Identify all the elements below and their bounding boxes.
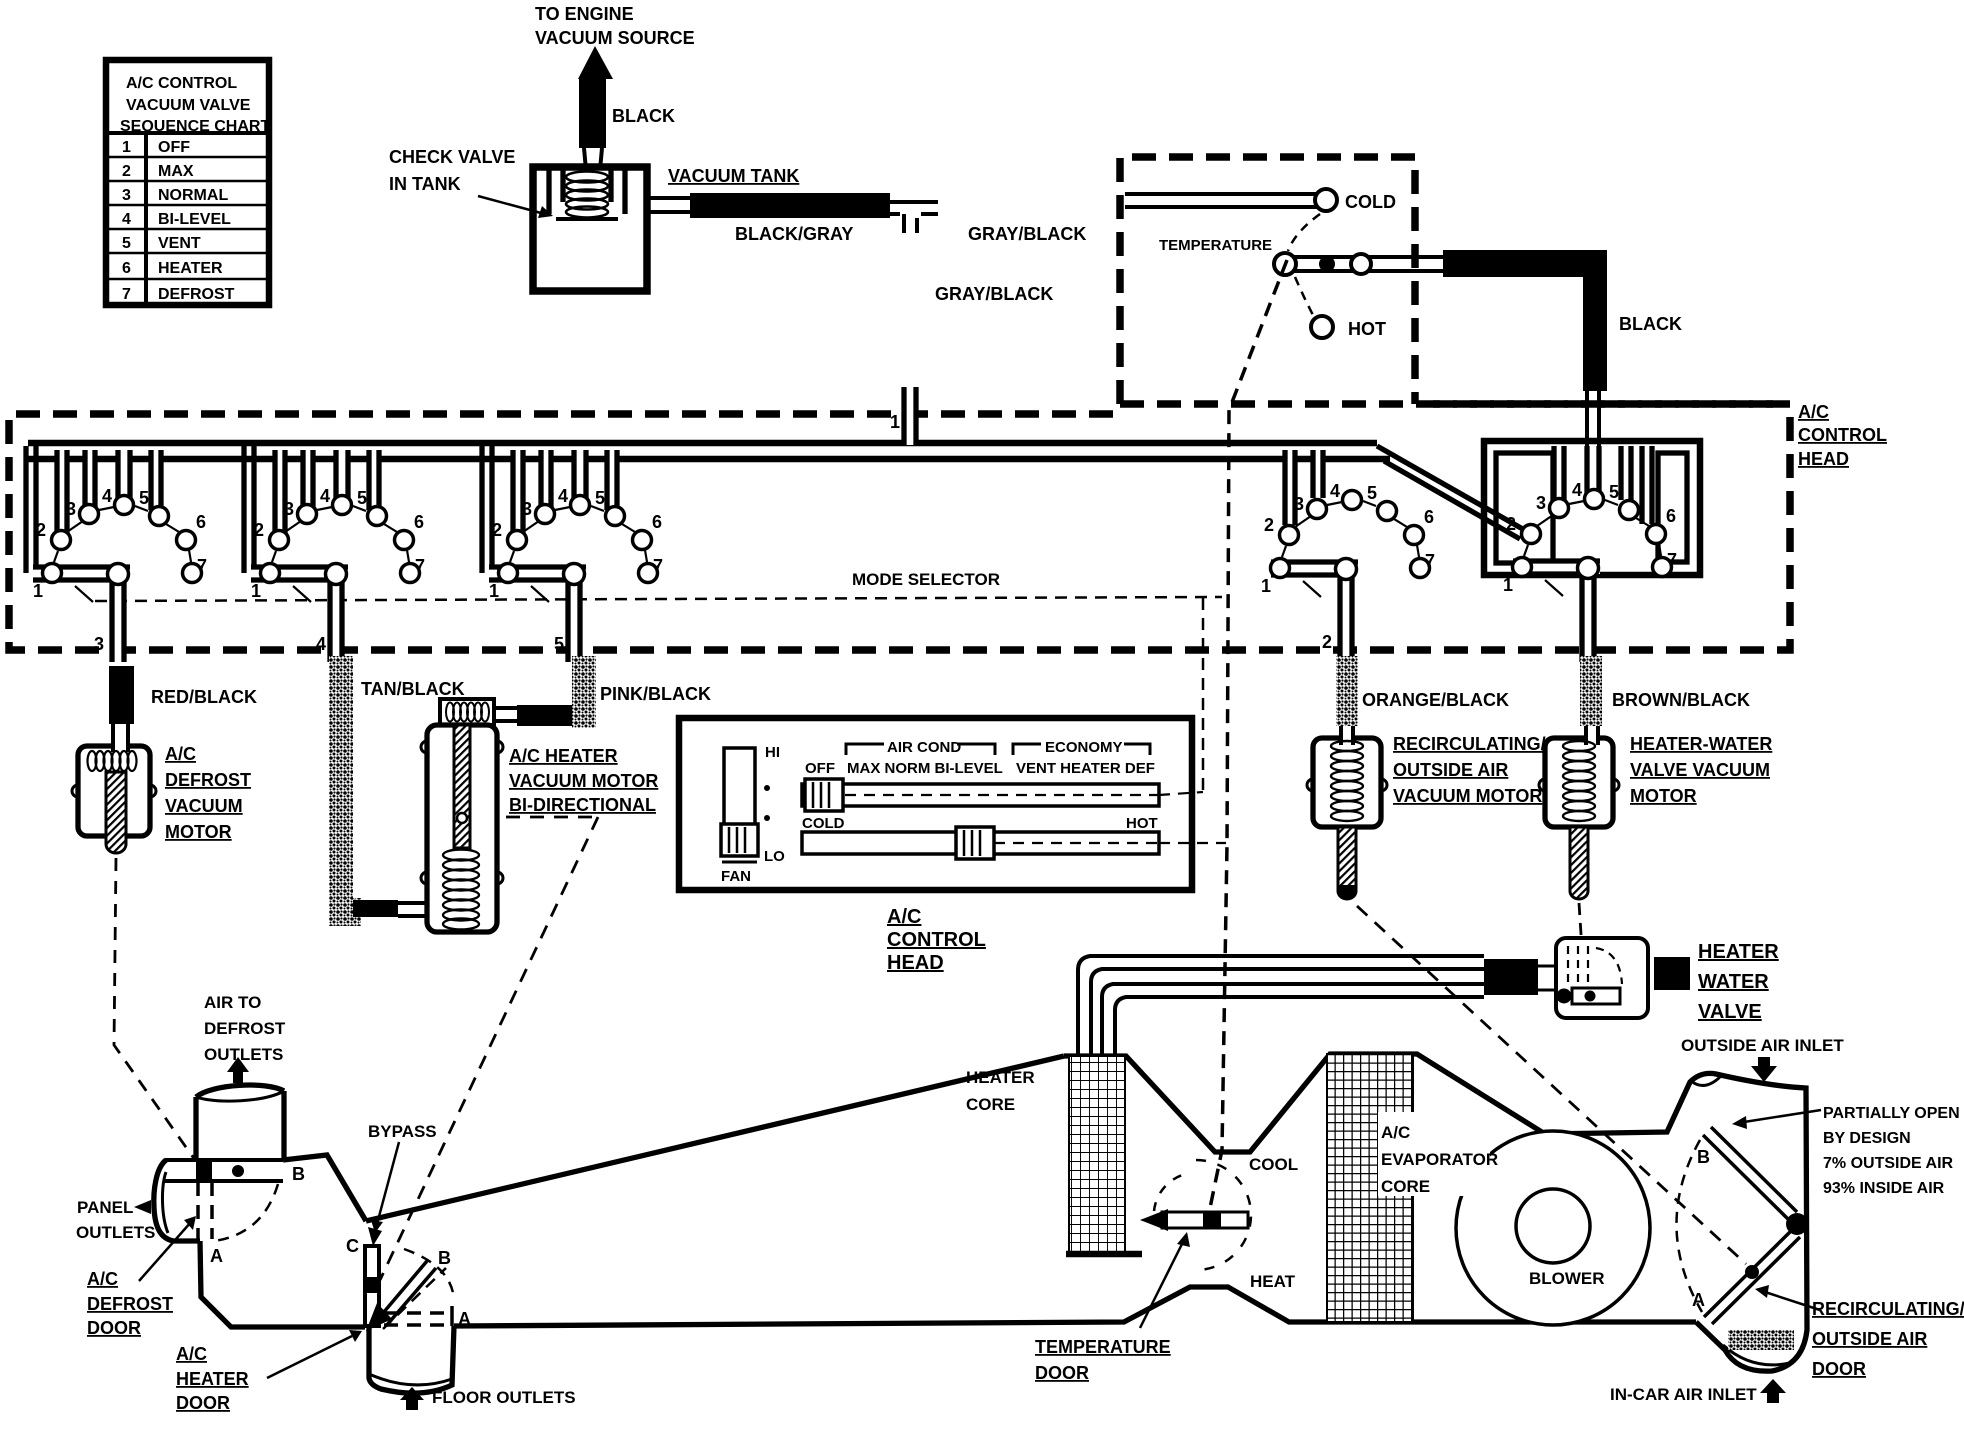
svg-text:COLD: COLD <box>1345 192 1396 212</box>
bypass leader <box>377 1142 399 1224</box>
svg-text:4: 4 <box>1330 481 1340 501</box>
heater core <box>1069 1056 1125 1255</box>
svg-text:4: 4 <box>102 486 112 506</box>
svg-text:CONTROL: CONTROL <box>887 929 986 951</box>
teeth <box>57 450 161 534</box>
svg-text:FLOOR OUTLETS: FLOOR OUTLETS <box>432 1388 576 1407</box>
svg-text:VACUUM SOURCE: VACUUM SOURCE <box>535 28 695 48</box>
svg-text:GRAY/BLACK: GRAY/BLACK <box>968 224 1086 244</box>
svg-text:1: 1 <box>890 412 900 432</box>
temp knob <box>956 827 994 859</box>
long top slope <box>366 1056 1064 1221</box>
svg-text:RECIRCULATING/: RECIRCULATING/ <box>1812 1299 1964 1319</box>
svg-text:OUTSIDE AIR: OUTSIDE AIR <box>1393 760 1508 780</box>
svg-text:A/C: A/C <box>1798 402 1829 422</box>
svg-text:VALVE VACUUM: VALVE VACUUM <box>1630 760 1770 780</box>
svg-text:1: 1 <box>33 581 43 601</box>
sequence chart table <box>106 60 269 305</box>
svg-text:HOT: HOT <box>1348 319 1386 339</box>
svg-text:1: 1 <box>1503 575 1513 595</box>
svg-text:HEAT: HEAT <box>1250 1272 1296 1291</box>
svg-text:7: 7 <box>122 286 131 303</box>
black hose to tank <box>579 79 606 148</box>
left edge <box>23 446 28 573</box>
node COLD <box>1315 189 1337 211</box>
svg-text:MODE SELECTOR: MODE SELECTOR <box>852 570 1000 589</box>
svg-text:6: 6 <box>122 260 131 277</box>
svg-text:A/C: A/C <box>87 1269 118 1289</box>
svg-text:VACUUM MOTOR: VACUUM MOTOR <box>509 771 658 791</box>
svg-text:2: 2 <box>122 163 131 180</box>
svg-text:6: 6 <box>196 512 206 532</box>
svg-text:GRAY/BLACK: GRAY/BLACK <box>935 284 1053 304</box>
svg-text:OUTLETS: OUTLETS <box>76 1223 155 1242</box>
defrost/panel junction duct B <box>165 1160 283 1181</box>
temp slider slot <box>802 832 1159 854</box>
svg-text:A/C: A/C <box>1381 1123 1410 1142</box>
svg-text:IN-CAR AIR INLET: IN-CAR AIR INLET <box>1610 1385 1757 1404</box>
check valve cup <box>549 170 625 214</box>
port circles <box>43 496 202 585</box>
port 1 tube <box>33 567 130 580</box>
svg-text:HEAD: HEAD <box>887 952 944 974</box>
arrow to defrost outlets <box>227 1057 249 1083</box>
svg-text:BLACK/GRAY: BLACK/GRAY <box>735 224 853 244</box>
blower <box>1456 1131 1650 1325</box>
svg-text:RECIRCULATING/: RECIRCULATING/ <box>1393 734 1546 754</box>
temperature door <box>1162 1212 1248 1228</box>
svg-text:5: 5 <box>1367 483 1377 503</box>
svg-text:3: 3 <box>66 499 76 519</box>
heater door pivot arrow <box>366 1303 392 1331</box>
svg-text:3: 3 <box>1536 493 1546 513</box>
svg-text:PANEL: PANEL <box>77 1198 133 1217</box>
main vacuum supply bus tube <box>28 440 1377 447</box>
svg-text:MAX: MAX <box>158 163 194 180</box>
mode selector valve cluster 5 (heater-water) with box <box>1484 441 1700 662</box>
fan slider slot <box>724 748 755 854</box>
svg-text:OFF: OFF <box>158 139 190 156</box>
heater door A dashed <box>384 1313 450 1325</box>
A/C heater door leader arrow <box>267 1336 352 1378</box>
svg-text:5: 5 <box>122 235 131 252</box>
tank outlet tube <box>647 198 690 212</box>
pipe from black hose down to mode valve 5 port 4 <box>1587 391 1599 497</box>
svg-text:SEQUENCE CHART: SEQUENCE CHART <box>120 118 270 135</box>
svg-text:2: 2 <box>1506 514 1516 534</box>
svg-text:CHECK VALVE: CHECK VALVE <box>389 147 515 167</box>
svg-text:C: C <box>346 1236 359 1256</box>
svg-text:OFF: OFF <box>805 760 835 777</box>
svg-text:BYPASS: BYPASS <box>368 1122 437 1141</box>
svg-text:LO: LO <box>764 848 785 865</box>
A/C control head dashed box <box>9 404 1790 650</box>
svg-text:BLACK: BLACK <box>1619 314 1682 334</box>
A/C control head label (top right) <box>1798 402 1887 469</box>
mode selector valve cluster 2 <box>244 446 425 662</box>
svg-text:2: 2 <box>36 520 46 540</box>
tube neck into tank <box>584 148 602 170</box>
engine vacuum source arrow <box>578 46 613 79</box>
svg-text:CORE: CORE <box>1381 1177 1430 1196</box>
recirc door A <box>1704 1230 1800 1324</box>
svg-text:COLD: COLD <box>802 815 845 832</box>
svg-text:1: 1 <box>122 139 131 156</box>
svg-text:TO ENGINE: TO ENGINE <box>535 4 634 24</box>
svg-text:EVAPORATOR: EVAPORATOR <box>1381 1150 1498 1169</box>
svg-text:A/C: A/C <box>887 906 921 928</box>
svg-text:B: B <box>438 1248 451 1268</box>
mode knob at OFF <box>805 779 843 811</box>
svg-text:AIR TO: AIR TO <box>204 993 261 1012</box>
temperature cable long dashed link <box>1210 260 1287 1208</box>
svg-text:RED/BLACK: RED/BLACK <box>151 687 257 707</box>
svg-text:HEATER: HEATER <box>158 260 223 277</box>
svg-text:PINK/BLACK: PINK/BLACK <box>600 684 711 704</box>
node HOT <box>1311 316 1333 338</box>
svg-text:93% INSIDE AIR: 93% INSIDE AIR <box>1823 1180 1945 1197</box>
svg-text:DOOR: DOOR <box>87 1318 141 1338</box>
svg-text:CORE: CORE <box>966 1095 1015 1114</box>
selector tick <box>75 586 93 602</box>
mode selector valve cluster 1 <box>26 446 207 662</box>
svg-text:6: 6 <box>1666 506 1676 526</box>
port numbers <box>33 486 207 601</box>
svg-text:BI-DIRECTIONAL: BI-DIRECTIONAL <box>509 795 656 815</box>
svg-text:WATER: WATER <box>1698 971 1769 993</box>
svg-text:TEMPERATURE: TEMPERATURE <box>1159 237 1272 254</box>
recirc door pivot <box>1786 1213 1808 1235</box>
air cond bracket <box>846 744 995 755</box>
heater-water valve vacuum motor <box>1539 733 1772 996</box>
A/C control head panel <box>679 718 1226 974</box>
svg-text:FAN: FAN <box>721 868 751 885</box>
svg-text:A/C: A/C <box>165 744 196 764</box>
svg-text:OUTSIDE AIR: OUTSIDE AIR <box>1812 1329 1927 1349</box>
svg-text:2: 2 <box>1264 515 1274 535</box>
defrost door arc <box>214 1184 278 1241</box>
svg-text:6: 6 <box>1424 507 1434 527</box>
svg-text:5: 5 <box>139 488 149 508</box>
outside air inlet arrow <box>1751 1057 1777 1082</box>
evaporator core labels <box>1378 1112 1498 1196</box>
svg-text:OUTLETS: OUTLETS <box>204 1045 283 1064</box>
svg-text:A/C CONTROL: A/C CONTROL <box>126 75 237 92</box>
housing top right portion <box>1064 1054 1807 1371</box>
door position letters <box>210 1147 1710 1329</box>
svg-text:3: 3 <box>1294 494 1304 514</box>
hose TAN/BLACK (stippled) <box>329 656 353 926</box>
svg-text:DEFROST: DEFROST <box>158 286 235 303</box>
svg-text:HI: HI <box>765 744 780 761</box>
mode selector dashed line <box>95 597 1222 601</box>
svg-text:PARTIALLY OPEN: PARTIALLY OPEN <box>1823 1105 1960 1122</box>
drop tube <box>112 574 124 662</box>
inner left chamber <box>1496 453 1553 563</box>
housing outline left hump <box>283 1155 366 1221</box>
heater door B <box>378 1261 436 1326</box>
svg-text:A: A <box>1692 1290 1705 1310</box>
cold cable pipe <box>1125 194 1317 207</box>
svg-text:A/C: A/C <box>176 1344 207 1364</box>
svg-text:MOTOR: MOTOR <box>1630 786 1697 806</box>
mode selector valve cluster 3 <box>482 446 663 662</box>
svg-text:MAX NORM BI-LEVEL: MAX NORM BI-LEVEL <box>847 760 1003 777</box>
svg-text:ORANGE/BLACK: ORANGE/BLACK <box>1362 690 1509 710</box>
temperature cable pipe <box>1286 257 1447 271</box>
svg-text:IN TANK: IN TANK <box>389 174 461 194</box>
vacuum tank box <box>533 167 647 291</box>
dashed travel arcs <box>1288 214 1320 251</box>
svg-text:COOL: COOL <box>1249 1155 1298 1174</box>
temperature control dashed enclosure <box>1120 157 1415 404</box>
svg-text:VACUUM VALVE: VACUUM VALVE <box>126 97 251 114</box>
svg-text:BLACK: BLACK <box>612 106 675 126</box>
black elbow hose <box>1443 250 1607 277</box>
A/C defrost door leader arrow <box>139 1222 191 1281</box>
bottom labels <box>76 993 1844 1407</box>
svg-text:DEFROST: DEFROST <box>165 770 251 790</box>
svg-text:VACUUM TANK: VACUUM TANK <box>668 166 799 186</box>
svg-text:4: 4 <box>1572 480 1582 500</box>
mode cable dashed link (selector to slider) <box>1202 598 1205 790</box>
svg-text:HEATER: HEATER <box>176 1369 249 1389</box>
recirc door B <box>1703 1127 1797 1221</box>
svg-text:5: 5 <box>1609 482 1619 502</box>
heater pipes <box>1078 956 1484 1056</box>
svg-text:DOOR: DOOR <box>1812 1359 1866 1379</box>
svg-text:B: B <box>1697 1147 1710 1167</box>
gray/black pipe with tee <box>890 202 938 233</box>
check valve leader arrow <box>478 196 541 213</box>
svg-text:DOOR: DOOR <box>176 1393 230 1413</box>
housing left lower outline <box>200 1241 365 1327</box>
panel outlets duct <box>154 1160 200 1241</box>
panel outlets arrow <box>134 1200 151 1214</box>
svg-text:DEFROST: DEFROST <box>204 1019 286 1038</box>
svg-text:VENT HEATER DEF: VENT HEATER DEF <box>1016 760 1155 777</box>
svg-text:7: 7 <box>1425 551 1435 571</box>
recirculating/outside air vacuum motor <box>1307 733 1746 1264</box>
svg-text:2: 2 <box>1322 632 1332 652</box>
svg-text:5: 5 <box>554 634 564 654</box>
in-car air inlet arrow <box>1760 1379 1786 1403</box>
svg-text:7: 7 <box>1667 550 1677 570</box>
svg-text:DOOR: DOOR <box>1035 1363 1089 1383</box>
partially open leader arrow <box>1744 1110 1821 1122</box>
recirc door arc <box>1676 1140 1702 1312</box>
svg-text:VENT: VENT <box>158 235 201 252</box>
svg-text:TEMPERATURE: TEMPERATURE <box>1035 1337 1171 1357</box>
arc connectors <box>54 506 191 562</box>
svg-text:OUTSIDE AIR INLET: OUTSIDE AIR INLET <box>1681 1036 1844 1055</box>
svg-text:AIR COND: AIR COND <box>887 739 961 756</box>
hose RED/BLACK <box>109 666 134 724</box>
A/C evaporator core <box>1327 1054 1413 1322</box>
svg-text:BI-LEVEL: BI-LEVEL <box>158 211 231 228</box>
hose PINK/BLACK (stippled) <box>572 656 596 728</box>
svg-text:VACUUM: VACUUM <box>165 796 243 816</box>
svg-text:CONTROL: CONTROL <box>1798 425 1887 445</box>
A/C heater vacuum motor (bi-directional) <box>380 699 658 1280</box>
inner right chamber <box>1658 453 1687 562</box>
diagonal tube to valve 5 port 2 <box>1377 446 1528 539</box>
heater door C <box>365 1246 379 1326</box>
floor outlets arrow <box>400 1387 424 1410</box>
svg-text:HEATER-WATER: HEATER-WATER <box>1630 734 1772 754</box>
temperature door leader arrow <box>1140 1240 1184 1328</box>
fan knob <box>721 824 758 856</box>
svg-text:3: 3 <box>94 634 104 654</box>
economy bracket <box>1013 744 1150 755</box>
svg-text:HEAD: HEAD <box>1798 449 1849 469</box>
svg-text:HOT: HOT <box>1126 815 1158 832</box>
heater water valve <box>1484 938 1779 1023</box>
black/gray hose <box>690 193 890 218</box>
floor outlets duct <box>369 1326 454 1393</box>
svg-text:BROWN/BLACK: BROWN/BLACK <box>1612 690 1750 710</box>
defrost door A (dashed) <box>198 1182 212 1239</box>
svg-text:7: 7 <box>197 556 207 576</box>
defrost outlet duct <box>196 1085 284 1160</box>
svg-text:BY DESIGN: BY DESIGN <box>1823 1130 1911 1147</box>
svg-text:HEATER: HEATER <box>1698 941 1779 963</box>
check valve spring <box>566 172 608 218</box>
mode slider slot <box>802 784 1159 806</box>
recirc door leader arrow <box>1765 1292 1820 1310</box>
svg-text:VACUUM MOTOR: VACUUM MOTOR <box>1393 786 1542 806</box>
svg-text:3: 3 <box>122 187 131 204</box>
svg-text:A: A <box>458 1309 471 1329</box>
svg-text:HEATER: HEATER <box>966 1068 1035 1087</box>
svg-text:NORMAL: NORMAL <box>158 187 228 204</box>
svg-text:MOTOR: MOTOR <box>165 822 232 842</box>
svg-text:A: A <box>210 1246 223 1266</box>
supply pipe from tank tee <box>890 387 916 445</box>
svg-text:A/C HEATER: A/C HEATER <box>509 746 618 766</box>
hose ORANGE/BLACK (stippled) <box>1336 656 1358 726</box>
A/C defrost vacuum motor <box>72 740 251 1160</box>
bottom edge <box>454 1287 1696 1326</box>
svg-text:VALVE: VALVE <box>1698 1001 1762 1023</box>
svg-text:B: B <box>292 1164 305 1184</box>
svg-text:TAN/BLACK: TAN/BLACK <box>361 679 465 699</box>
hose BROWN/BLACK (stippled) <box>1580 656 1602 726</box>
svg-text:ECONOMY: ECONOMY <box>1045 739 1123 756</box>
svg-text:BLOWER: BLOWER <box>1529 1269 1605 1288</box>
svg-text:7% OUTSIDE AIR: 7% OUTSIDE AIR <box>1823 1155 1954 1172</box>
svg-text:1: 1 <box>1261 576 1271 596</box>
mode selector valve cluster 4 (recirc) <box>1261 450 1435 662</box>
svg-text:4: 4 <box>316 634 326 654</box>
svg-text:DEFROST: DEFROST <box>87 1294 173 1314</box>
svg-text:4: 4 <box>122 211 131 228</box>
